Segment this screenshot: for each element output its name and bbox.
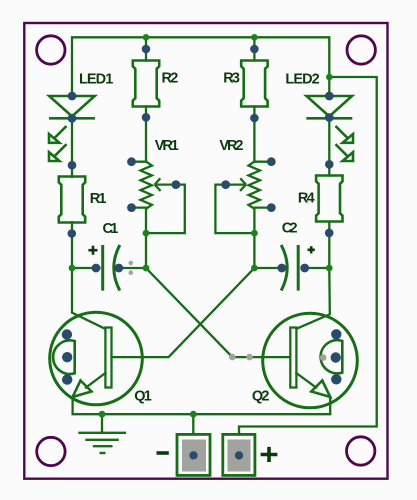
svg-text:LED1: LED1 (79, 72, 113, 88)
svg-text:R1: R1 (90, 191, 107, 207)
svg-text:C1: C1 (103, 221, 119, 237)
svg-text:R4: R4 (298, 191, 315, 207)
svg-text:Q2: Q2 (252, 388, 270, 404)
svg-text:LED2: LED2 (285, 71, 319, 87)
svg-text:VR2: VR2 (219, 138, 243, 154)
svg-text:C2: C2 (282, 221, 298, 237)
svg-text:Q1: Q1 (134, 388, 152, 404)
svg-text:R2: R2 (162, 70, 179, 86)
svg-text:R3: R3 (223, 70, 240, 86)
svg-text:VR1: VR1 (155, 138, 179, 154)
